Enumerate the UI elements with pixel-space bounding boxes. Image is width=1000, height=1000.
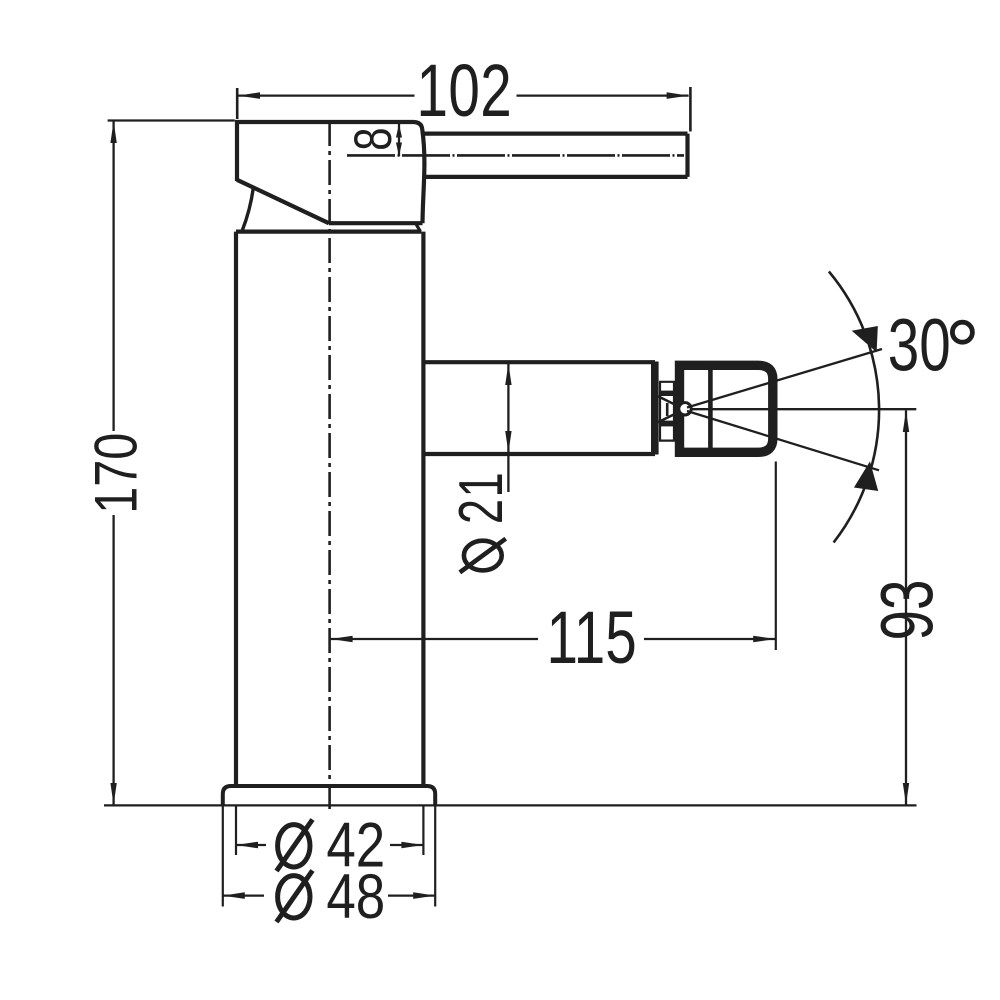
swivel angle upper line <box>687 349 882 408</box>
pivot circle <box>679 403 691 415</box>
dim 8 arrow down <box>396 143 402 157</box>
spray cone line lower <box>658 409 685 422</box>
dim 8 line with arrows <box>398 124 400 156</box>
dim 170 line upper segment <box>112 121 114 431</box>
svg-text:170: 170 <box>83 433 150 514</box>
svg-text:21: 21 <box>446 471 516 524</box>
body column left edge <box>234 232 238 786</box>
dim phi48 extension line left <box>222 807 224 907</box>
svg-text:8: 8 <box>344 127 403 150</box>
dim 115 arrow left <box>331 636 353 643</box>
svg-text:30: 30 <box>888 303 951 386</box>
swivel arrowhead lower (filled) <box>856 465 877 490</box>
dim phi42 arrow left <box>236 842 258 849</box>
dim 102 line <box>238 94 689 96</box>
handle lever top edge <box>421 132 688 136</box>
spout top edge <box>423 360 655 364</box>
handle lever bottom edge <box>425 175 688 179</box>
dim phi48 arrow left <box>223 892 245 899</box>
spray cone back bar <box>666 403 669 416</box>
body column right edge <box>421 232 425 786</box>
connector lower thick bar <box>660 421 675 427</box>
connector upper thick bar <box>660 391 675 396</box>
spout bottom edge <box>423 452 655 456</box>
spray cone line upper <box>658 396 685 409</box>
dim phi48 line <box>223 894 435 896</box>
phi symbol of dim 48 <box>277 871 313 923</box>
base flange outline <box>223 786 435 805</box>
dim phi21 line <box>507 364 509 492</box>
dim 93 arrow down <box>903 783 909 805</box>
phi symbol of dim 42 <box>277 820 313 872</box>
centerline column (vertical dash-dot axis) <box>328 121 331 812</box>
aerator inner ring line <box>708 365 713 452</box>
swivel angle lower line <box>687 411 879 470</box>
faucet head top and left outline <box>237 122 414 181</box>
dim 170 top extension line <box>108 119 235 121</box>
dim 8 arrow up <box>396 124 402 138</box>
faucet head right edge with bulge <box>414 122 424 223</box>
dim 102 extension tick left <box>236 88 239 119</box>
handle lever end cap <box>685 134 689 177</box>
faucet head diagonal lower-left edge <box>237 180 329 223</box>
swivel arrowhead upper (filled) <box>855 328 877 350</box>
dim 170 arrow up <box>110 121 116 143</box>
dim phi21 arrow up <box>505 364 511 385</box>
dim phi42 line <box>236 844 423 846</box>
svg-text:102: 102 <box>417 49 513 132</box>
body column top edge <box>236 230 421 234</box>
dim 115 arrow right <box>753 636 775 643</box>
dim 93 line <box>905 410 907 804</box>
spout end cap (thick ring) <box>651 362 659 455</box>
centerline handle (horizontal dash-dot axis of lever) <box>347 154 684 157</box>
dim 102 arrow right <box>667 92 689 99</box>
dim phi48 extension line right <box>434 807 436 907</box>
dim 170 line lower segment <box>112 515 114 805</box>
svg-text:93: 93 <box>866 580 949 641</box>
svg-text:48: 48 <box>326 862 385 932</box>
dim 102 extension tick right <box>689 87 692 132</box>
dim text phi 21 (rotated) <box>446 471 516 573</box>
svg-text:115: 115 <box>546 595 636 678</box>
dim phi21 arrow down <box>505 431 511 453</box>
dim phi42 extension line left <box>235 807 237 856</box>
dim phi48 arrow right <box>413 892 435 899</box>
dim 170 arrow down <box>110 783 116 805</box>
swivel arc <box>829 272 879 543</box>
faucet head bottom edge <box>329 221 423 225</box>
body/head small slant joint <box>416 224 420 231</box>
dim phi42 arrow right <box>401 842 423 849</box>
degree symbol circle <box>952 322 972 342</box>
baseline mounting surface <box>104 804 917 806</box>
dim phi42 extension line right <box>422 807 424 856</box>
dim 102 arrow left <box>238 92 260 99</box>
dim 115 extension line right <box>775 462 777 651</box>
head tilt arc <box>242 187 253 230</box>
dim 93 arrow up <box>903 410 909 432</box>
pivot horizontal axis line <box>692 408 917 410</box>
connector outline box <box>660 382 674 441</box>
aerator body (thick, square left corners, rounded right) <box>680 365 773 452</box>
dim 115 line <box>331 638 776 640</box>
